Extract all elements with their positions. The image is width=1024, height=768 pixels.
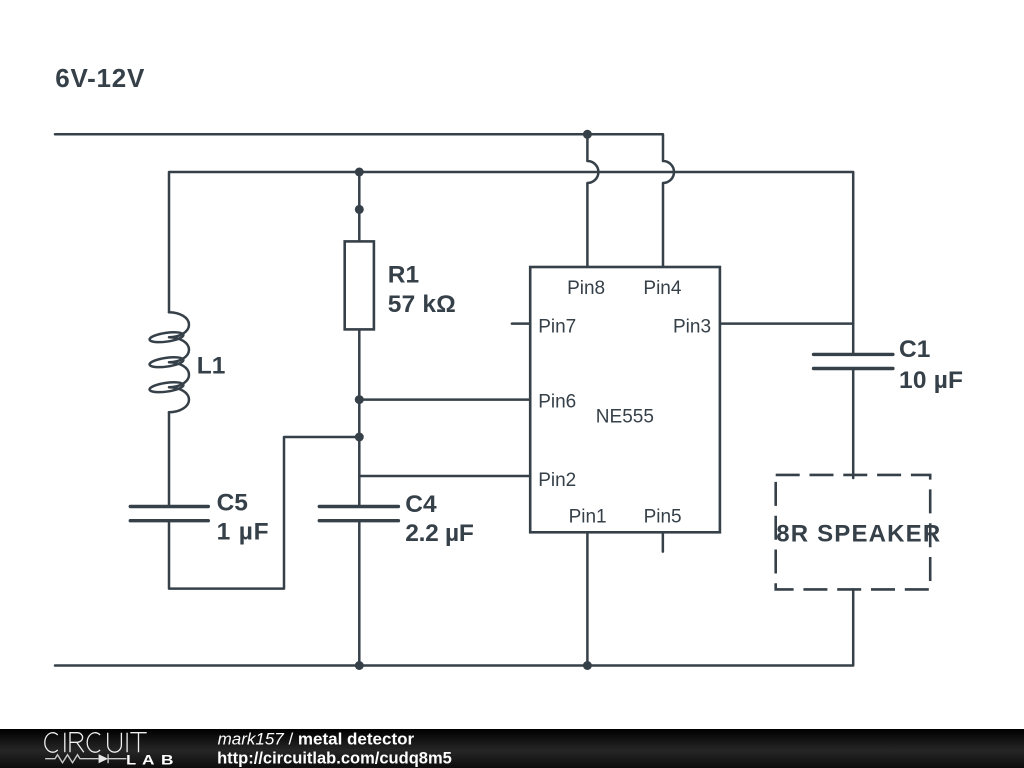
svg-text:2.2 µF: 2.2 µF bbox=[405, 520, 474, 547]
svg-text:C4: C4 bbox=[405, 491, 437, 518]
svg-text:Pin4: Pin4 bbox=[643, 278, 681, 299]
svg-text:R1: R1 bbox=[388, 262, 419, 289]
svg-text:Pin5: Pin5 bbox=[644, 507, 682, 528]
svg-text:10 µF: 10 µF bbox=[899, 367, 963, 394]
svg-text:C1: C1 bbox=[899, 336, 930, 363]
svg-text:mark157 / metal detector: mark157 / metal detector bbox=[218, 729, 415, 748]
svg-text:8R SPEAKER: 8R SPEAKER bbox=[776, 520, 940, 547]
svg-text:Pin6: Pin6 bbox=[538, 392, 576, 413]
svg-text:6V-12V: 6V-12V bbox=[55, 63, 145, 93]
svg-text:L: L bbox=[126, 752, 137, 768]
svg-text:Pin2: Pin2 bbox=[538, 470, 576, 491]
svg-text:A: A bbox=[142, 752, 155, 768]
svg-text:L1: L1 bbox=[197, 352, 226, 379]
svg-text:Pin1: Pin1 bbox=[569, 507, 607, 528]
svg-text:Pin3: Pin3 bbox=[673, 317, 711, 338]
svg-text:Pin7: Pin7 bbox=[538, 317, 576, 338]
svg-text:C5: C5 bbox=[217, 490, 248, 517]
svg-text:NE555: NE555 bbox=[596, 407, 654, 428]
svg-text:57 kΩ: 57 kΩ bbox=[388, 291, 456, 318]
svg-text:http://circuitlab.com/cudq8m5: http://circuitlab.com/cudq8m5 bbox=[217, 750, 452, 768]
svg-text:1 µF: 1 µF bbox=[217, 519, 269, 546]
svg-text:Pin8: Pin8 bbox=[567, 278, 605, 299]
svg-text:B: B bbox=[161, 752, 174, 768]
